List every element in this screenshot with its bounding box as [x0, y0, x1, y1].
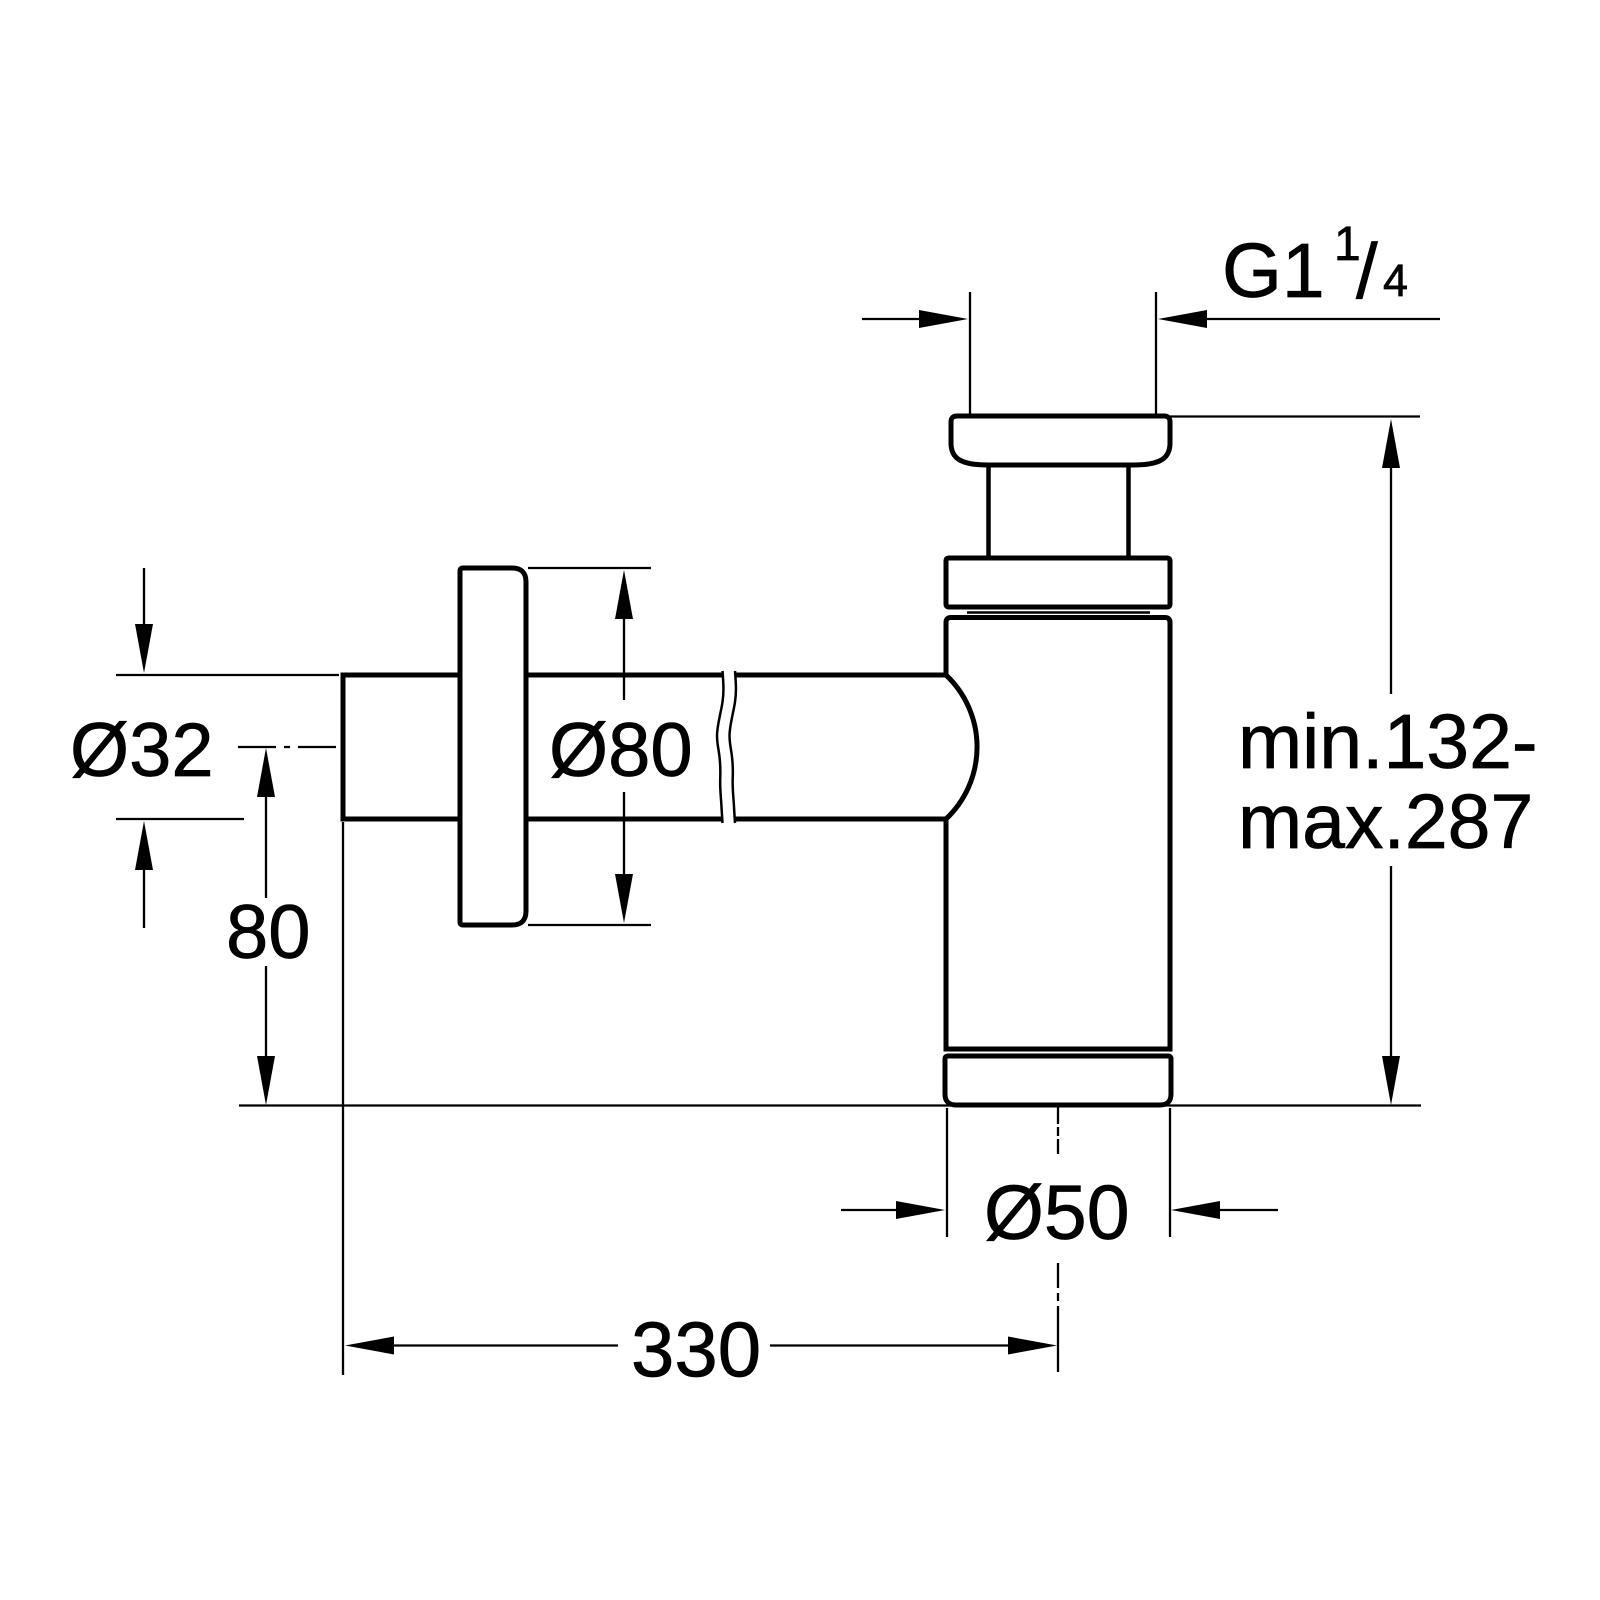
- G1 1/4 arrowhead right (points left): [1158, 310, 1207, 328]
- svg-text:Ø50: Ø50: [984, 1170, 1130, 1256]
- locknut: [946, 558, 1170, 607]
- gap ring line: [967, 611, 1150, 614]
- trap body with inlet bulge: [946, 618, 1170, 1050]
- O32 top extension: [116, 674, 339, 676]
- min-max arrowhead bottom (points down): [1382, 1056, 1400, 1105]
- bottom cap: [945, 1056, 1171, 1105]
- 80 arrowhead bottom (points down): [257, 1056, 275, 1105]
- inlet neck pipe: [989, 465, 1129, 558]
- O80 arrowhead top (points up): [615, 570, 633, 619]
- G1 1/4 extension line left: [969, 292, 971, 416]
- O32 arrowhead bottom (points up): [135, 821, 153, 870]
- svg-text:80: 80: [226, 890, 311, 975]
- baseline: [239, 1104, 1421, 1106]
- 80 arrowhead top (points up): [257, 748, 275, 797]
- O80 dimension line upper: [623, 616, 625, 700]
- 330 dimension line right part: [770, 1344, 1011, 1346]
- O80 dimension line lower: [623, 792, 625, 876]
- G1 1/4 extension line right: [1155, 292, 1157, 416]
- 330 arrowhead left (points left): [345, 1337, 394, 1355]
- svg-text:Ø32: Ø32: [70, 708, 214, 793]
- O80 bottom extension: [528, 924, 651, 926]
- body centerline lower dash-dot: [1057, 1263, 1059, 1372]
- svg-text:Ø80: Ø80: [549, 708, 693, 793]
- min-max arrowhead top (points up): [1382, 419, 1400, 468]
- svg-text:4: 4: [1383, 255, 1408, 306]
- O50 arrowhead left (points right): [896, 1201, 945, 1219]
- svg-text:G1: G1: [1222, 228, 1325, 314]
- O32 arrow top shaft: [143, 568, 145, 627]
- 330 dimension line left part: [391, 1344, 618, 1346]
- O80 top extension: [528, 567, 651, 569]
- horizontal outlet pipe top line: [343, 673, 947, 678]
- 80 dimension line lower: [265, 966, 267, 1058]
- O32 bottom extension: [116, 818, 244, 820]
- inlet nut (top flange): [951, 416, 1170, 465]
- pipe left end cap: [341, 673, 346, 822]
- G1 1/4 dimension line left part: [862, 318, 924, 320]
- wall flange disc: [460, 568, 526, 925]
- min-max dimension line upper: [1390, 465, 1392, 694]
- O32 arrowhead top (points down): [135, 624, 153, 673]
- nut top extension line to right: [1170, 415, 1420, 417]
- O50 extension left: [946, 1108, 948, 1237]
- svg-text:max.287: max.287: [1238, 779, 1533, 865]
- 330 left extension: [342, 822, 344, 1375]
- G1 1/4 arrowhead left (points right): [919, 310, 968, 328]
- 330 arrowhead right (points right): [1008, 1337, 1057, 1355]
- pipe break squiggle left: [717, 671, 723, 823]
- svg-text:/: /: [1356, 227, 1378, 315]
- O32 arrow bottom shaft: [143, 867, 145, 928]
- pipe break squiggle right: [729, 671, 735, 823]
- svg-text:330: 330: [631, 1305, 761, 1393]
- pipe centerline dash-dot: [238, 746, 341, 748]
- min-max dimension line lower: [1390, 866, 1392, 1059]
- body centerline upper: [1057, 1107, 1059, 1154]
- O80 arrowhead bottom (points down): [615, 874, 633, 923]
- O50 arrow left shaft: [841, 1209, 899, 1211]
- label G1 1/4: [1222, 218, 1408, 315]
- O50 arrowhead right (points left): [1171, 1201, 1220, 1219]
- O50 extension right: [1169, 1108, 1171, 1237]
- G1 1/4 dimension line right part: [1203, 318, 1440, 320]
- horizontal outlet pipe bottom line: [343, 817, 947, 822]
- svg-text:min.132-: min.132-: [1238, 699, 1538, 785]
- O50 arrow right shaft: [1217, 1209, 1278, 1211]
- 80 dimension line upper: [265, 795, 267, 898]
